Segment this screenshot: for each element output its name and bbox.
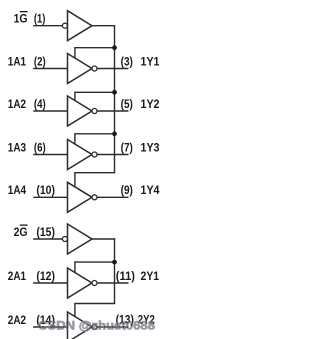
label (11) 2Y1 — [116, 269, 159, 283]
label 1A2 (pin 4) — [8, 97, 46, 111]
wire: pin 14 input to U6 — [33, 326, 68, 328]
label 1A1 (pin 2) — [8, 54, 46, 68]
wire: pin 4 input to U2 — [33, 110, 68, 112]
svg-text:(12): (12) — [36, 269, 55, 283]
svg-text:1A1: 1A1 — [8, 54, 26, 68]
wire: enable rail 1 (vertical) — [114, 25, 116, 173]
svg-text:2A2: 2A2 — [8, 313, 26, 327]
wire: enable branch to U3 — [75, 133, 115, 146]
wire: pin 1 to G1 input bubble — [33, 25, 62, 27]
inverter G2 (enable buffer 2G) — [62, 224, 92, 254]
svg-text:(4): (4) — [34, 97, 46, 111]
svg-text:1Y3: 1Y3 — [141, 140, 160, 154]
label (5) 1Y2 — [121, 97, 160, 111]
svg-text:1Y1: 1Y1 — [141, 54, 160, 68]
wire: G1 output to enable rail 1 — [92, 25, 115, 27]
inverting buffer U2 (1A2->1Y2) — [68, 96, 98, 126]
label 1A4 (pin 10) — [8, 183, 55, 197]
svg-text:(3): (3) — [121, 54, 133, 68]
wire: U1 output to pin 3 — [97, 68, 129, 70]
svg-text:(15): (15) — [36, 225, 55, 239]
svg-text:(9): (9) — [121, 183, 133, 197]
svg-text:1Y2: 1Y2 — [141, 97, 160, 111]
svg-text:1G: 1G — [14, 11, 28, 25]
node: junction dot rail1/U3 — [112, 131, 117, 136]
label 1G (pin 1) — [14, 11, 46, 25]
wire: pin 2 input to U1 — [33, 68, 68, 70]
label 2G (pin 15) — [14, 225, 55, 239]
watermark CSDN — [38, 319, 155, 333]
inverting buffer U4 (1A4->1Y4) — [68, 182, 98, 212]
inverting buffer U3 (1A3->1Y3) — [68, 140, 98, 170]
svg-text:2A1: 2A1 — [8, 269, 26, 283]
label (9) 1Y4 — [121, 183, 160, 197]
inverter G1 (enable buffer 1G) — [62, 11, 92, 41]
wire: enable rail 2 (vertical) — [114, 238, 116, 303]
wire: pin 12 input to U5 — [33, 282, 68, 284]
label (7) 1Y3 — [121, 140, 160, 154]
svg-text:1Y4: 1Y4 — [141, 183, 160, 197]
wire: U6 output to pin 13 — [97, 326, 129, 328]
svg-text:(7): (7) — [121, 140, 133, 154]
svg-text:1A2: 1A2 — [8, 97, 26, 111]
svg-text:2G: 2G — [14, 225, 28, 239]
inverting buffer U1 (1A1->1Y1) — [68, 54, 98, 84]
wire: enable branch to U5 — [75, 261, 115, 274]
svg-text:(2): (2) — [34, 54, 46, 68]
svg-text:1A4: 1A4 — [8, 183, 26, 197]
svg-text:(10): (10) — [36, 183, 55, 197]
label (13) 2Y2 — [116, 313, 155, 327]
svg-text:1A3: 1A3 — [8, 140, 26, 154]
label (3) 1Y1 — [121, 54, 160, 68]
inverting buffer U5 (2A1->2Y1) — [68, 268, 98, 298]
wire: enable branch to U1 — [75, 47, 115, 60]
wire: pin 6 input to U3 — [33, 154, 68, 156]
node: junction dot rail1/U2 — [112, 90, 117, 95]
wire: enable branch to U6 (rail 2 end corner) — [75, 303, 115, 319]
svg-text:(6): (6) — [34, 140, 46, 154]
wire: G2 output to enable rail 2 — [92, 238, 115, 240]
label 1A3 (pin 6) — [8, 140, 46, 154]
wire: pin 15 to G2 input bubble — [33, 238, 62, 240]
svg-text:(5): (5) — [121, 97, 133, 111]
wire: U4 output to pin 9 — [97, 196, 129, 198]
svg-text:2Y1: 2Y1 — [141, 269, 160, 283]
svg-text:(11): (11) — [116, 269, 135, 283]
svg-text:CSDN @zhust0688: CSDN @zhust0688 — [38, 319, 155, 333]
wire: enable branch to U4 (rail 1 end corner) — [75, 172, 115, 189]
svg-text:(1): (1) — [34, 11, 46, 25]
wire: U5 output to pin 11 — [97, 282, 129, 284]
wire: U2 output to pin 5 — [97, 110, 129, 112]
wire: enable branch to U2 — [75, 92, 115, 102]
wire: U3 output to pin 7 — [97, 154, 129, 156]
label 2A1 (pin 12) — [8, 269, 55, 283]
label 2A2 (pin 14) — [8, 313, 55, 327]
node: junction dot rail1/U1 — [112, 45, 117, 50]
wire: pin 10 input to U4 — [33, 196, 68, 198]
node: junction dot rail2/U5 — [112, 260, 117, 265]
inverting buffer U6 (2A2->2Y2) — [68, 312, 98, 339]
